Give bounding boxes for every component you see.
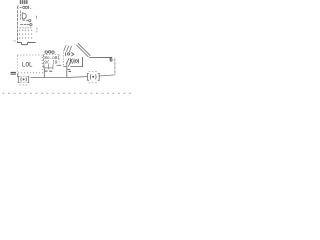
resistor R1 with node (22, 19, 31, 21)
wire (main bottom bus) (31, 77, 88, 78)
motor M1 mount dots (19, 84, 27, 86)
IC U1 right border (dashed, partial) (36, 16, 38, 34)
node A dots (13, 40, 16, 41)
battery BT1 terminals "==" (11, 72, 16, 74)
wire (motor M2 to corner) (99, 75, 115, 76)
detector U3 bottom edge (63, 62, 82, 67)
sensor nodes ooo (45, 51, 54, 54)
motor M2 mount dots top (89, 71, 97, 73)
antenna marks \\ (76, 43, 90, 57)
node B eye (64, 52, 67, 56)
relay K1 box (dashed, labeled LOL) (17, 55, 42, 73)
wire (LOL box to motor M1) (17, 73, 19, 77)
wire (detector drop) (66, 67, 68, 77)
capacitor C3 "==" (68, 70, 72, 72)
svg-text:6: 6 (109, 57, 113, 64)
connector J1 pin labels "8888" (20, 0, 28, 4)
motor M2 box [(o)] (88, 73, 100, 80)
motor M1 box [(o)] (18, 76, 28, 82)
wire (dashed row) (19, 27, 31, 29)
motor M2 mount dots bottom (89, 82, 97, 84)
diode D1 ">" (71, 53, 73, 57)
IC U1 inner bus wire (20, 10, 22, 19)
sensor U2 pins |_|_| (44, 65, 61, 70)
svg-text:LOL: LOL (22, 62, 33, 69)
svg-text:9( )9: 9( )9 (44, 60, 57, 66)
detector U3 box left edge (62, 52, 64, 66)
antenna marks /// (64, 45, 72, 52)
capacitor C1 row "(-oo)" (18, 6, 32, 10)
capacitor C2 "==" (45, 70, 53, 72)
transistor Q1 (D shape) (22, 12, 26, 19)
wire (sensor U2 drop) (43, 68, 45, 77)
wire (right vertical return) (114, 58, 116, 75)
sensor U2 box (dashed) (44, 55, 60, 68)
connector pin grid (19, 30, 32, 39)
IC U1 left border (dashed) (16, 10, 18, 42)
ground bus (bottom dashed line) (3, 92, 131, 94)
IC U1 bottom edge with notch (17, 43, 35, 45)
detector U3 right edge (82, 57, 84, 67)
wire (top feedback line) (89, 56, 110, 58)
transistor Q2 row /K(o)| (66, 58, 78, 64)
resistor R2 with node (20, 24, 32, 26)
